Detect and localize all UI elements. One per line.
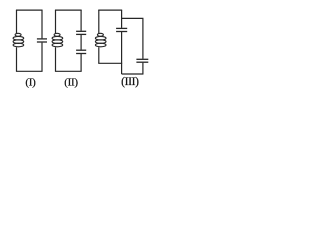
wire circuit III lower stub to right branch [122, 73, 144, 75]
wire circuit II right wire between C2 and C3 [80, 35, 82, 50]
wire circuit I right wire upper segment [41, 10, 43, 38]
capacitor C4 top plate [116, 27, 127, 29]
svg-text:(I): (I) [25, 77, 36, 89]
wire circuit III middle branch below C4 [121, 32, 123, 74]
capacitor C3 top plate [76, 49, 86, 51]
wire circuit II left wire upper segment [55, 10, 57, 34]
capacitor C5 top plate [136, 58, 148, 60]
capacitor C1 top plate [37, 38, 47, 40]
svg-text:(II): (II) [64, 77, 78, 89]
capacitor C2 bottom plate [76, 33, 86, 35]
wire circuit III right branch below C5 [142, 63, 144, 74]
wire circuit II bottom edge [55, 70, 82, 72]
svg-text:(III): (III) [121, 76, 139, 88]
wire circuit II top edge [55, 9, 82, 11]
wire circuit III left wire upper segment [98, 10, 100, 34]
capacitor C4 bottom plate [116, 31, 127, 33]
wire circuit III bottom edge [98, 62, 122, 64]
wire circuit III middle branch above C4 [121, 10, 123, 28]
wire circuit I left wire upper segment [16, 10, 18, 34]
wire circuit I right wire lower segment [41, 43, 43, 72]
wire circuit II left wire lower segment [55, 47, 57, 71]
wire circuit III left wire lower segment [98, 47, 100, 63]
capacitor C2 top plate [76, 30, 86, 32]
wire circuit II right wire above C2 [80, 10, 82, 31]
inductor L1 [13, 33, 24, 47]
wire circuit I bottom edge [16, 70, 43, 72]
inductor L3 [95, 33, 106, 47]
capacitor C3 bottom plate [76, 53, 86, 55]
wire circuit III top edge [98, 9, 122, 11]
capacitor C5 bottom plate [136, 61, 148, 63]
wire circuit I top edge [16, 9, 43, 11]
wire circuit II right wire below C3 [80, 54, 82, 71]
wire circuit I left wire lower segment [16, 47, 18, 71]
inductor L2 [52, 33, 63, 47]
wire circuit III right branch above C5 [142, 18, 144, 58]
wire circuit III upper stub to right branch [122, 17, 144, 19]
capacitor C1 bottom plate [37, 41, 47, 43]
